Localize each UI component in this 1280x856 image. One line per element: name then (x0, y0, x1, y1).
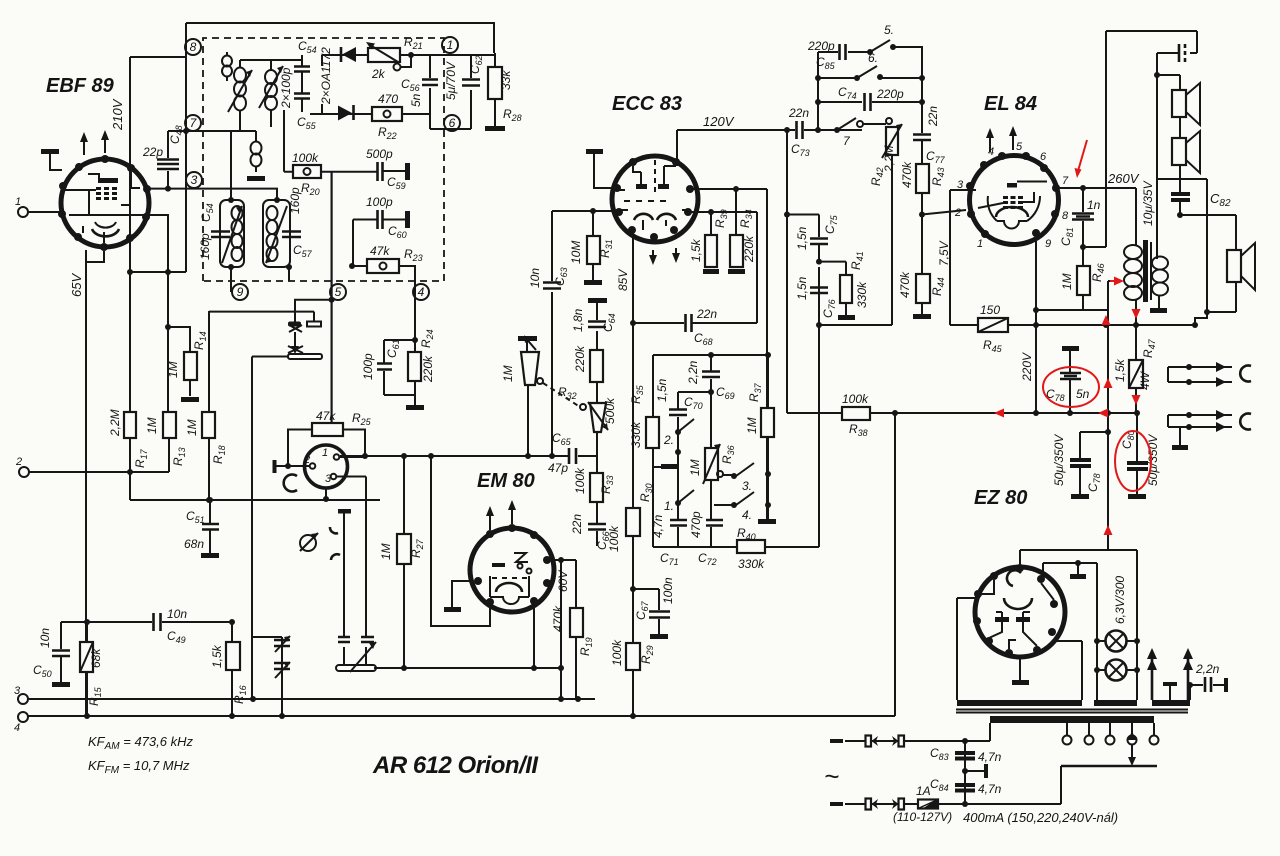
svg-text:160p: 160p (288, 187, 302, 214)
svg-text:1: 1 (322, 447, 328, 459)
svg-text:2: 2 (954, 207, 961, 219)
svg-text:1,8n: 1,8n (571, 308, 585, 332)
svg-text:470p: 470p (689, 511, 703, 538)
svg-text:330k: 330k (855, 281, 869, 308)
svg-text:160p: 160p (198, 233, 212, 260)
svg-text:1,5n: 1,5n (655, 378, 669, 402)
svg-text:1M: 1M (745, 417, 759, 434)
svg-text:1,5k: 1,5k (689, 238, 703, 262)
svg-text:1,5k: 1,5k (210, 644, 224, 668)
svg-text:47k: 47k (370, 244, 390, 258)
svg-text:1: 1 (15, 196, 21, 208)
svg-text:1M: 1M (185, 419, 199, 436)
svg-text:22n: 22n (788, 106, 809, 120)
svg-text:6.: 6. (868, 51, 878, 65)
svg-text:100k: 100k (573, 467, 587, 494)
svg-text:1,5n: 1,5n (795, 226, 809, 250)
svg-text:2: 2 (15, 456, 22, 468)
svg-text:1,5k: 1,5k (1113, 358, 1127, 382)
svg-text:22n: 22n (570, 514, 584, 535)
svg-text:7,5V: 7,5V (937, 240, 951, 266)
svg-text:4: 4 (988, 146, 994, 158)
svg-text:6,3V/300: 6,3V/300 (1113, 576, 1127, 624)
svg-text:60V: 60V (556, 570, 570, 592)
svg-text:EM 80: EM 80 (477, 470, 535, 492)
svg-text:22n: 22n (926, 106, 940, 127)
svg-text:AR 612 Orion/II: AR 612 Orion/II (372, 752, 539, 779)
svg-text:47p: 47p (548, 461, 568, 475)
svg-text:5: 5 (1016, 141, 1023, 153)
svg-text:1.: 1. (664, 499, 674, 513)
svg-text:5n: 5n (409, 93, 423, 107)
svg-text:470k: 470k (898, 271, 912, 298)
svg-text:68n: 68n (184, 537, 204, 551)
svg-text:8: 8 (1062, 210, 1069, 222)
svg-text:7: 7 (1062, 175, 1069, 187)
svg-text:2.: 2. (663, 433, 674, 447)
svg-text:4,7n: 4,7n (978, 750, 1002, 764)
svg-text:210V: 210V (110, 98, 125, 131)
svg-text:22p: 22p (142, 145, 163, 159)
svg-text:6: 6 (1040, 151, 1047, 163)
svg-text:1M: 1M (166, 361, 180, 378)
svg-text:1: 1 (447, 38, 454, 52)
svg-text:3: 3 (325, 473, 332, 485)
svg-text:1,5n: 1,5n (795, 276, 809, 300)
svg-text:10M: 10M (569, 241, 583, 264)
svg-text:330k: 330k (738, 557, 765, 571)
svg-text:8: 8 (190, 40, 197, 54)
svg-text:4: 4 (14, 722, 20, 734)
svg-text:10n: 10n (528, 268, 542, 288)
svg-text:5: 5 (335, 285, 342, 299)
svg-text:50μ/350V: 50μ/350V (1052, 434, 1066, 486)
svg-text:100k: 100k (292, 151, 319, 165)
svg-text:400mA (150,220,240V-nál): 400mA (150,220,240V-nál) (963, 810, 1118, 825)
svg-text:120V: 120V (703, 114, 735, 129)
svg-text:22n: 22n (696, 307, 717, 321)
svg-text:470k: 470k (551, 605, 565, 632)
svg-text:2,2n: 2,2n (1195, 662, 1220, 676)
svg-text:33k: 33k (499, 70, 513, 90)
svg-text:100p: 100p (366, 195, 393, 209)
svg-text:(110-127V): (110-127V) (893, 810, 952, 824)
svg-text:470: 470 (378, 92, 398, 106)
svg-text:100k: 100k (607, 525, 621, 552)
svg-text:1M: 1M (1060, 273, 1074, 290)
svg-text:EL 84: EL 84 (984, 93, 1037, 115)
svg-text:220p: 220p (876, 87, 904, 101)
svg-text:3: 3 (191, 173, 198, 187)
svg-text:1A: 1A (916, 784, 931, 798)
svg-text:260V: 260V (1107, 171, 1140, 186)
svg-text:220k: 220k (421, 355, 435, 383)
svg-text:220V: 220V (1020, 352, 1034, 382)
svg-text:100k: 100k (842, 392, 869, 406)
svg-text:4,7n: 4,7n (978, 782, 1002, 796)
svg-text:1n: 1n (1087, 198, 1101, 212)
svg-text:1M: 1M (688, 459, 702, 476)
svg-text:65V: 65V (69, 273, 84, 297)
svg-text:10n: 10n (167, 607, 187, 621)
svg-text:4,7n: 4,7n (651, 514, 665, 538)
svg-text:470k: 470k (900, 161, 914, 188)
svg-text:3.: 3. (742, 479, 752, 493)
svg-text:2×100p: 2×100p (279, 67, 293, 109)
svg-text:220k: 220k (742, 235, 756, 263)
svg-text:4: 4 (418, 285, 425, 299)
svg-text:100p: 100p (361, 353, 375, 380)
svg-text:6: 6 (449, 116, 456, 130)
svg-text:ECC 83: ECC 83 (612, 93, 682, 115)
svg-text:500k: 500k (603, 397, 617, 424)
svg-text:10μ/35V: 10μ/35V (1141, 180, 1155, 226)
svg-text:500p: 500p (366, 147, 393, 161)
svg-text:4W: 4W (1138, 370, 1152, 390)
svg-text:2,2M: 2,2M (108, 409, 122, 437)
svg-text:85V: 85V (616, 269, 630, 291)
svg-text:9: 9 (1045, 238, 1051, 250)
svg-text:5.: 5. (884, 23, 894, 37)
svg-text:10n: 10n (38, 628, 52, 648)
svg-text:EBF 89: EBF 89 (46, 75, 115, 97)
svg-text:330k: 330k (629, 421, 643, 448)
svg-text:1M: 1M (501, 365, 515, 382)
svg-text:1M: 1M (145, 417, 159, 434)
svg-text:68k: 68k (89, 648, 103, 668)
svg-text:5n: 5n (1076, 387, 1090, 401)
svg-text:~: ~ (824, 761, 839, 791)
svg-text:1M: 1M (379, 543, 393, 560)
svg-text:3: 3 (14, 685, 21, 697)
svg-text:5μ/70V: 5μ/70V (444, 61, 458, 100)
svg-text:47k: 47k (316, 409, 336, 423)
svg-text:4.: 4. (742, 508, 752, 522)
svg-text:150: 150 (980, 303, 1000, 317)
svg-text:100n: 100n (661, 577, 675, 604)
svg-text:220p: 220p (807, 39, 835, 53)
svg-text:220k: 220k (573, 345, 587, 373)
svg-text:1: 1 (977, 238, 983, 250)
svg-text:100k: 100k (610, 639, 624, 666)
svg-text:2: 2 (303, 454, 310, 466)
svg-text:EZ 80: EZ 80 (974, 487, 1027, 509)
svg-text:2,2n: 2,2n (686, 360, 700, 385)
svg-text:2k: 2k (371, 67, 386, 81)
svg-text:9: 9 (237, 285, 244, 299)
